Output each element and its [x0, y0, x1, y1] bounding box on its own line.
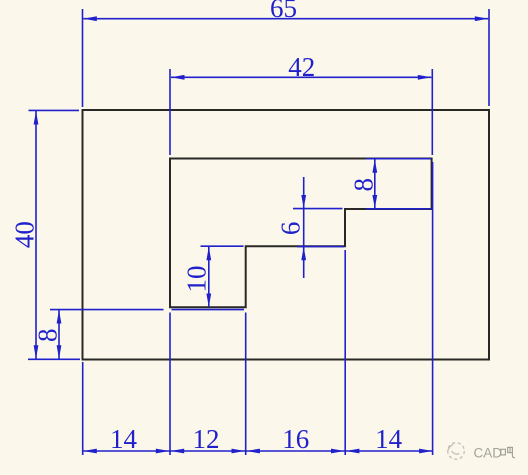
dim 40 dimension line: [35, 111, 37, 359]
svg-text:65: 65: [270, 0, 297, 23]
arrow bottom chain at 345 right side: [346, 449, 360, 454]
dim 6 extension line top: [293, 208, 343, 210]
dim 42 extension line left: [169, 69, 171, 155]
arrow 8MR top: [372, 159, 377, 173]
arrow 65 left: [83, 16, 97, 21]
dim 40 extension line top: [29, 109, 80, 111]
arrow 8MR bottom: [372, 195, 377, 209]
arrow 42 left: [171, 75, 185, 80]
dim 65 extension line left: [82, 9, 84, 107]
svg-text:10: 10: [182, 266, 212, 293]
dim 42 dimension line: [171, 76, 431, 78]
dim 42 extension line right: [431, 69, 433, 155]
svg-text:16: 16: [282, 424, 309, 454]
arrow bottom chain rightmost: [419, 449, 433, 454]
dim 6 extension line bottom: [297, 246, 344, 248]
bottom chain dimension line: [83, 450, 432, 452]
inner stepped cutout outline: [170, 159, 432, 308]
arrow 10 bottom: [206, 294, 211, 308]
svg-text:8: 8: [32, 329, 62, 343]
svg-text:40: 40: [10, 221, 40, 248]
dim 6 dimension line: [303, 177, 305, 278]
dim 65 extension line right: [488, 9, 490, 106]
watermark logo (dashed circle): [448, 443, 465, 460]
arrow 6 bottom (outside, pointing up): [301, 247, 306, 260]
dim 10 extension line top: [201, 245, 244, 247]
svg-text:CAD: CAD: [474, 446, 503, 461]
arrow 40 top: [34, 111, 39, 125]
dim 65 dimension line: [83, 18, 488, 20]
watermark glyph 吧: [501, 447, 515, 457]
svg-text:14: 14: [110, 424, 138, 454]
arrow bottom chain at 345 left side: [331, 449, 345, 454]
arrow 40 bottom: [34, 345, 39, 359]
bottom chain extension line x82: [82, 362, 84, 455]
arrow 65 right: [475, 16, 489, 21]
dim 8 mid-right extension line bottom: [366, 208, 431, 210]
arrow 6 top (outside, pointing down): [301, 195, 306, 209]
arrow bottom chain at 170 right side: [171, 449, 185, 454]
arrow bottom chain at 170 left side: [156, 449, 170, 454]
arrow bottom chain at 245 right side: [246, 449, 260, 454]
arrow 42 right: [418, 75, 432, 80]
svg-text:42: 42: [288, 52, 315, 82]
bottom chain extension line x345: [344, 250, 346, 455]
arrow 10 top: [206, 247, 211, 260]
arrow bottom chain leftmost: [83, 449, 97, 454]
svg-text:6: 6: [275, 222, 305, 236]
outer rectangle of part: [83, 110, 490, 360]
svg-text:8: 8: [349, 178, 379, 192]
dim 8 bottom-left dimension line: [58, 310, 60, 359]
arrow 8BL bottom: [57, 345, 62, 359]
bottom chain extension line x432: [432, 162, 434, 455]
svg-text:12: 12: [193, 424, 220, 454]
dim 40 extension line bottom: [28, 358, 80, 360]
dim 8 bottom-left extension line segment right: [172, 309, 245, 311]
bottom chain extension line x170: [169, 313, 171, 456]
dim 8 mid-right extension line top: [366, 158, 431, 160]
arrow bottom chain at 245 left side: [232, 449, 246, 454]
dim 8 bottom-left extension line: [50, 309, 164, 311]
bottom chain extension line x245: [245, 313, 247, 456]
dim 10 dimension line: [208, 247, 210, 307]
svg-text:14: 14: [375, 424, 403, 454]
dim 8 mid-right dimension line: [374, 159, 376, 208]
arrow 8BL top: [57, 310, 62, 324]
